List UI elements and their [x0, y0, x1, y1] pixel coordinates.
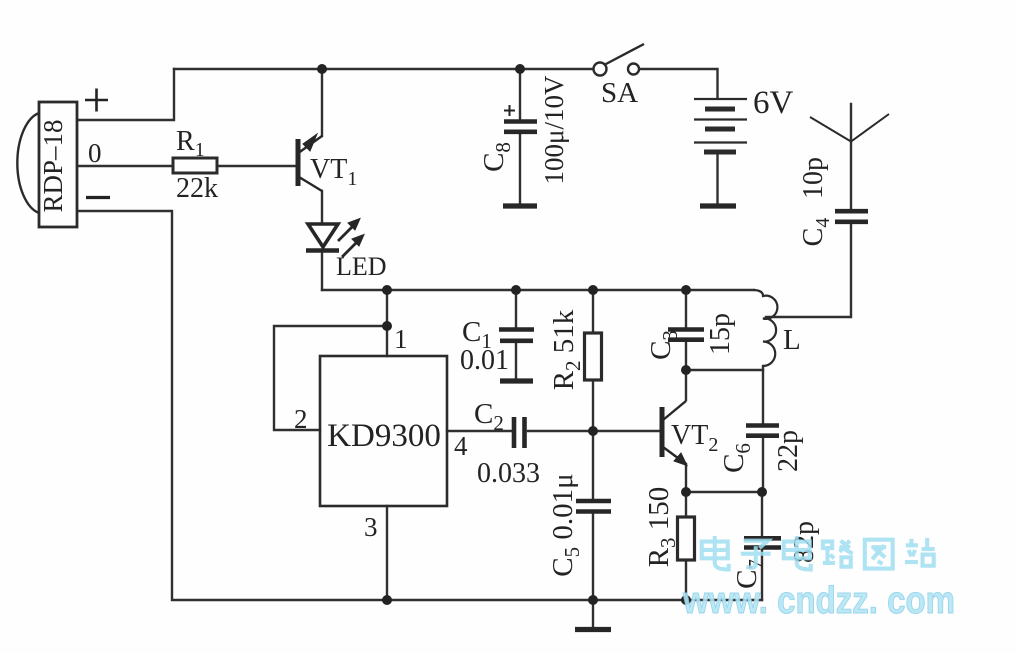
ground below C5	[575, 627, 611, 632]
wire R2 bottom	[592, 380, 594, 431]
svg-text:SA: SA	[601, 77, 638, 109]
wire C5 top	[592, 431, 594, 499]
resistor R3	[678, 517, 695, 560]
wire C6 bottom	[762, 438, 764, 492]
svg-text:C5 0.01μ: C5 0.01μ	[547, 473, 584, 576]
svg-text:R3 150: R3 150	[643, 487, 680, 568]
svg-text:100μ/10V: 100μ/10V	[539, 75, 569, 184]
wire C8 bottom	[519, 134, 521, 203]
transistor VT1 (PNP)	[298, 134, 322, 191]
capacitor C7 plates	[744, 538, 781, 547]
svg-text:R1: R1	[176, 126, 205, 161]
svg-text:C2: C2	[474, 398, 504, 435]
IC U1 KD9300 box	[320, 356, 447, 506]
watermark line1 Chinese	[702, 536, 935, 569]
capacitor C8 plates	[504, 122, 537, 132]
svg-text:C3: C3	[645, 330, 682, 360]
svg-text:0.033: 0.033	[477, 458, 540, 489]
capacitor C1 plates	[499, 330, 534, 341]
wire pin3	[386, 506, 388, 600]
capacitor C4 plates	[835, 211, 868, 222]
svg-text:10p: 10p	[798, 157, 829, 199]
ground below battery	[700, 203, 736, 208]
wire VT1 collector to LED	[321, 191, 323, 223]
svg-text:L: L	[783, 324, 801, 356]
ground below C8	[503, 203, 537, 208]
svg-text:2: 2	[294, 404, 308, 434]
wire C7 top	[761, 492, 763, 536]
wire plus lead	[78, 69, 174, 120]
capacitor C6 plates	[746, 426, 779, 436]
wire R1 to VT1 base	[217, 165, 296, 167]
wire mid rail	[322, 289, 754, 291]
wire C1 bottom	[515, 343, 517, 378]
label minus terminal	[86, 196, 110, 199]
wire top rail	[174, 68, 593, 70]
resistor R2	[585, 333, 602, 380]
antenna	[810, 114, 889, 142]
wire C5 ground lead	[592, 600, 594, 627]
wire C2 to node	[528, 430, 593, 432]
wire C3 bottom	[685, 342, 687, 370]
label plus terminal	[85, 89, 108, 112]
svg-text:C4: C4	[798, 218, 834, 247]
wire L bottom to C6	[762, 366, 764, 423]
wire VT1 emitter up	[321, 69, 323, 136]
svg-text:www. cndzz. com: www. cndzz. com	[682, 580, 955, 622]
svg-text:6V: 6V	[753, 85, 794, 121]
wire VT2 emitter down	[685, 464, 687, 492]
ground below C1	[500, 378, 533, 383]
label C8 plus	[504, 105, 515, 116]
svg-text:4: 4	[454, 431, 468, 461]
wire C7 bottom	[761, 549, 763, 600]
wire LED to mid rail	[321, 252, 323, 290]
svg-text:LED: LED	[336, 252, 387, 281]
svg-text:15p: 15p	[705, 313, 736, 355]
sensor RDP-18 body	[39, 102, 77, 227]
svg-text:0: 0	[88, 138, 102, 168]
wire C8 top	[519, 69, 521, 119]
wire R2 top	[592, 290, 594, 332]
wire battery bottom	[716, 153, 718, 203]
capacitor C3 plates	[668, 330, 704, 340]
svg-text:22p: 22p	[773, 430, 804, 472]
wire pin4 to C2	[447, 430, 511, 432]
svg-text:VT2: VT2	[671, 420, 718, 456]
svg-text:VT1: VT1	[310, 154, 357, 190]
capacitor C2 plates	[514, 417, 525, 448]
wire pin1	[386, 290, 388, 356]
wire feedback pin1 to pin2	[274, 326, 387, 430]
svg-text:3: 3	[364, 512, 378, 542]
switch SA	[594, 44, 645, 76]
wire switch to battery	[640, 69, 718, 98]
capacitor C5 plates	[576, 501, 611, 512]
wire C5 bottom	[592, 513, 594, 600]
wire VT2 collector	[685, 370, 687, 400]
inductor L coil	[754, 290, 777, 366]
wire minus lead and left/bottom rail	[78, 211, 762, 600]
resistor R1	[173, 158, 217, 173]
svg-text:RDP–18: RDP–18	[38, 119, 68, 212]
wire emitter node link	[686, 491, 762, 493]
svg-text:22k: 22k	[176, 173, 218, 204]
wire C3 top	[685, 290, 687, 327]
wire R3 top	[685, 492, 687, 517]
wire node to VT2 base	[593, 430, 659, 432]
svg-text:C6: C6	[718, 443, 755, 473]
transistor VT2 (NPN)	[662, 401, 687, 466]
wire R3 bottom	[685, 560, 687, 600]
wire C1 top	[515, 290, 517, 327]
LED VD	[306, 219, 364, 258]
svg-text:C8: C8	[478, 142, 515, 172]
wire C4 to coil tap	[766, 224, 851, 317]
svg-text:KD9300: KD9300	[327, 418, 441, 454]
svg-text:1: 1	[394, 324, 408, 354]
wire zero lead to R1	[78, 165, 173, 167]
battery GB 6V cells	[694, 99, 747, 152]
sensor RDP-18 dome	[17, 113, 39, 213]
wire antenna mast	[850, 104, 852, 209]
svg-text:R2 51k: R2 51k	[548, 309, 585, 390]
wire C3/L bottom link	[686, 369, 763, 371]
svg-text:0.01: 0.01	[460, 345, 509, 376]
